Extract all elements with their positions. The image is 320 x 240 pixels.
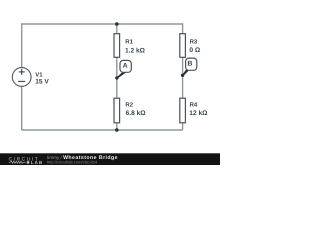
svg-text:LAB: LAB [31, 160, 44, 165]
wire top horizontal [22, 23, 183, 25]
svg-text:R2: R2 [125, 102, 133, 109]
wire right column center [182, 57, 184, 99]
svg-text:http://circuitlab.com/c6cv3z4: http://circuitlab.com/c6cv3z4 [47, 159, 98, 164]
node B flag [181, 58, 197, 77]
wire middle column bottom [116, 123, 118, 130]
wire left vertical lower [21, 86, 23, 130]
footer logo LAB [27, 161, 29, 163]
resistor R2 [114, 98, 120, 123]
wire right column bottom [182, 123, 184, 130]
wire middle column center [116, 57, 118, 99]
svg-text:12 kΩ: 12 kΩ [189, 110, 208, 117]
svg-text:A: A [123, 63, 128, 70]
wire bottom horizontal [22, 129, 183, 131]
svg-text:1.2 kΩ: 1.2 kΩ [125, 48, 146, 55]
node A flag [115, 60, 131, 79]
wire left vertical upper [21, 23, 23, 68]
svg-text:0 Ω: 0 Ω [189, 47, 200, 54]
junction node bottom middle [115, 128, 119, 132]
footer logo waveform [9, 161, 26, 163]
svg-text:6.8 kΩ: 6.8 kΩ [126, 110, 147, 117]
svg-text:R3: R3 [190, 39, 198, 46]
junction node top middle [115, 22, 119, 26]
voltage source V1 [12, 68, 31, 87]
resistor R3 [180, 34, 186, 58]
resistor R4 [180, 98, 186, 123]
svg-text:R1: R1 [125, 39, 133, 46]
footer bar [0, 153, 220, 165]
svg-text:V1: V1 [35, 71, 43, 78]
wire middle column top [116, 24, 118, 34]
svg-text:15 V: 15 V [35, 79, 49, 86]
svg-text:B: B [187, 61, 192, 68]
resistor R1 [114, 34, 120, 58]
svg-text:R4: R4 [190, 102, 198, 109]
wire right column top [182, 23, 184, 34]
